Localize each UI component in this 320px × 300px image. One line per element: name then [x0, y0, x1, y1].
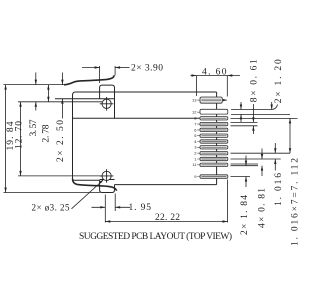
body bottom edge	[115, 184, 217, 186]
dim 1.016 stem	[274, 143, 276, 171]
3.57 arrows	[35, 80, 37, 85]
pad P9 stripe	[202, 152, 227, 154]
pad P4 edge extensions right	[231, 122, 258, 125]
pad P10	[200, 157, 228, 160]
2.78 arrows	[47, 85, 49, 90]
7.112 arrows	[289, 118, 291, 123]
dim 19.84 extension top	[4, 84, 65, 86]
svg-text:13: 13	[192, 98, 197, 103]
4.60 arrows	[192, 74, 197, 76]
pad P3	[200, 117, 228, 120]
svg-text:2× ø3. 25: 2× ø3. 25	[32, 203, 71, 213]
2.50 arrows	[61, 80, 63, 85]
1.016 arrows	[274, 148, 276, 153]
mount tab T1 top-left	[100, 85, 115, 99]
leader arrow dia3.25	[99, 180, 104, 184]
1.84 arrows	[245, 161, 247, 166]
dim 3.90 ext right	[114, 66, 116, 75]
22.22 arrows	[105, 220, 110, 222]
hole H2 center extension	[18, 175, 102, 177]
hole H2 circle with cross	[100, 169, 114, 183]
1.95 arrows	[100, 206, 105, 208]
svg-text:22. 22: 22. 22	[155, 213, 180, 223]
body right edge	[216, 92, 218, 185]
dim 1.95 ext right	[114, 194, 116, 212]
dim 2.50 stem	[61, 73, 63, 119]
pad P5 stripe	[202, 129, 227, 131]
pad P2	[200, 109, 228, 114]
pad P5	[200, 128, 228, 131]
pad P11	[200, 163, 228, 166]
pad P1 stripe	[202, 99, 222, 101]
pad P10 stripe	[202, 158, 227, 160]
dim 19.84 stem	[5, 85, 7, 193]
body left edge	[72, 96, 74, 179]
svg-text:12: 12	[192, 110, 197, 115]
dim 12.70 stem	[20, 102, 22, 176]
pad P7 stripe	[202, 141, 227, 143]
pad P7	[200, 140, 228, 143]
dim 2.78 stem	[47, 85, 49, 102]
body internal long line	[73, 117, 201, 119]
pad P11 stripe	[202, 164, 227, 166]
pad P2 top extension right with elbow to label	[231, 105, 278, 110]
19.84 arrows	[4, 85, 6, 90]
0.81 arrows	[261, 154, 263, 159]
pad P8	[200, 146, 228, 149]
pad P10 center extension right	[231, 158, 281, 160]
hole H1 circle with cross	[100, 97, 114, 111]
0.61 arrows	[252, 117, 254, 122]
dim 19.84 extension bottom	[4, 192, 101, 194]
dim 7.112 stem	[289, 118, 291, 153]
pad P8 stripe	[202, 146, 227, 148]
body internal bottom-left line	[73, 179, 100, 181]
dim 1.95 ext left	[104, 195, 106, 223]
svg-text:3. 57: 3. 57	[29, 119, 39, 136]
tab T1 right edge extension	[114, 99, 116, 118]
leader dia 3.25	[72, 180, 104, 209]
pad P4 stripe	[202, 123, 227, 125]
3.90 arrows	[95, 66, 100, 68]
pad P9	[200, 152, 228, 155]
retention wire bottom	[73, 179, 117, 191]
dim 22.22 line	[105, 221, 227, 223]
hole H1 center extension	[18, 101, 102, 103]
dim 3.90 line right	[115, 67, 129, 69]
dim 4.60 line	[191, 75, 241, 77]
pad P3 center extension right	[231, 117, 298, 119]
dim 3.57 stem	[35, 73, 37, 111]
pad P9 center extension right	[231, 152, 291, 154]
dim 4.60 ext left	[196, 76, 198, 96]
dim 1.84 stem	[245, 156, 247, 188]
pin numbers	[192, 98, 197, 179]
mount tab T2 bottom-left	[100, 180, 115, 193]
dim 1.95 line	[92, 206, 131, 208]
pad P4	[200, 122, 228, 125]
pad2 small arrows	[240, 105, 242, 110]
pad P6 stripe	[202, 135, 227, 137]
pads group	[200, 97, 228, 178]
dim 3.90 ext left	[99, 66, 101, 83]
pad P1	[200, 97, 222, 103]
pad P12 center extension right	[231, 176, 251, 178]
arrowheads	[4, 66, 291, 222]
body top edge	[75, 91, 217, 93]
svg-text:12. 70: 12. 70	[15, 121, 25, 149]
svg-text:SUGGESTED PCB LAYOUT (TOP VIEW: SUGGESTED PCB LAYOUT (TOP VIEW)	[79, 231, 232, 242]
dim 4.60 ext right	[226, 76, 228, 97]
pad P2 bottom extension right	[231, 113, 290, 115]
pin number leaders	[197, 100, 200, 176]
pad P6	[200, 134, 228, 137]
pad P1 leader to extension	[222, 99, 227, 101]
pad P12 stripe	[202, 176, 227, 178]
pad P11 edge extensions right	[231, 164, 259, 166]
body top-left corner arc	[73, 92, 76, 96]
retention wire top	[64, 75, 114, 85]
dim 3.90 line left	[82, 67, 100, 69]
body internal shelf line left	[55, 98, 115, 100]
pad P3 stripe	[202, 117, 227, 119]
12.70 arrows	[19, 102, 21, 107]
svg-text:2× 3.90: 2× 3.90	[131, 63, 163, 73]
dim 0.61 stem	[252, 104, 254, 134]
dim 0.81 stem	[261, 149, 263, 177]
pad P12	[200, 175, 228, 179]
dim 22.22 ext right	[227, 180, 229, 223]
svg-text:1. 95: 1. 95	[129, 203, 152, 213]
pad2 arrows stems	[241, 102, 272, 122]
svg-text:2. 78: 2. 78	[42, 124, 52, 142]
